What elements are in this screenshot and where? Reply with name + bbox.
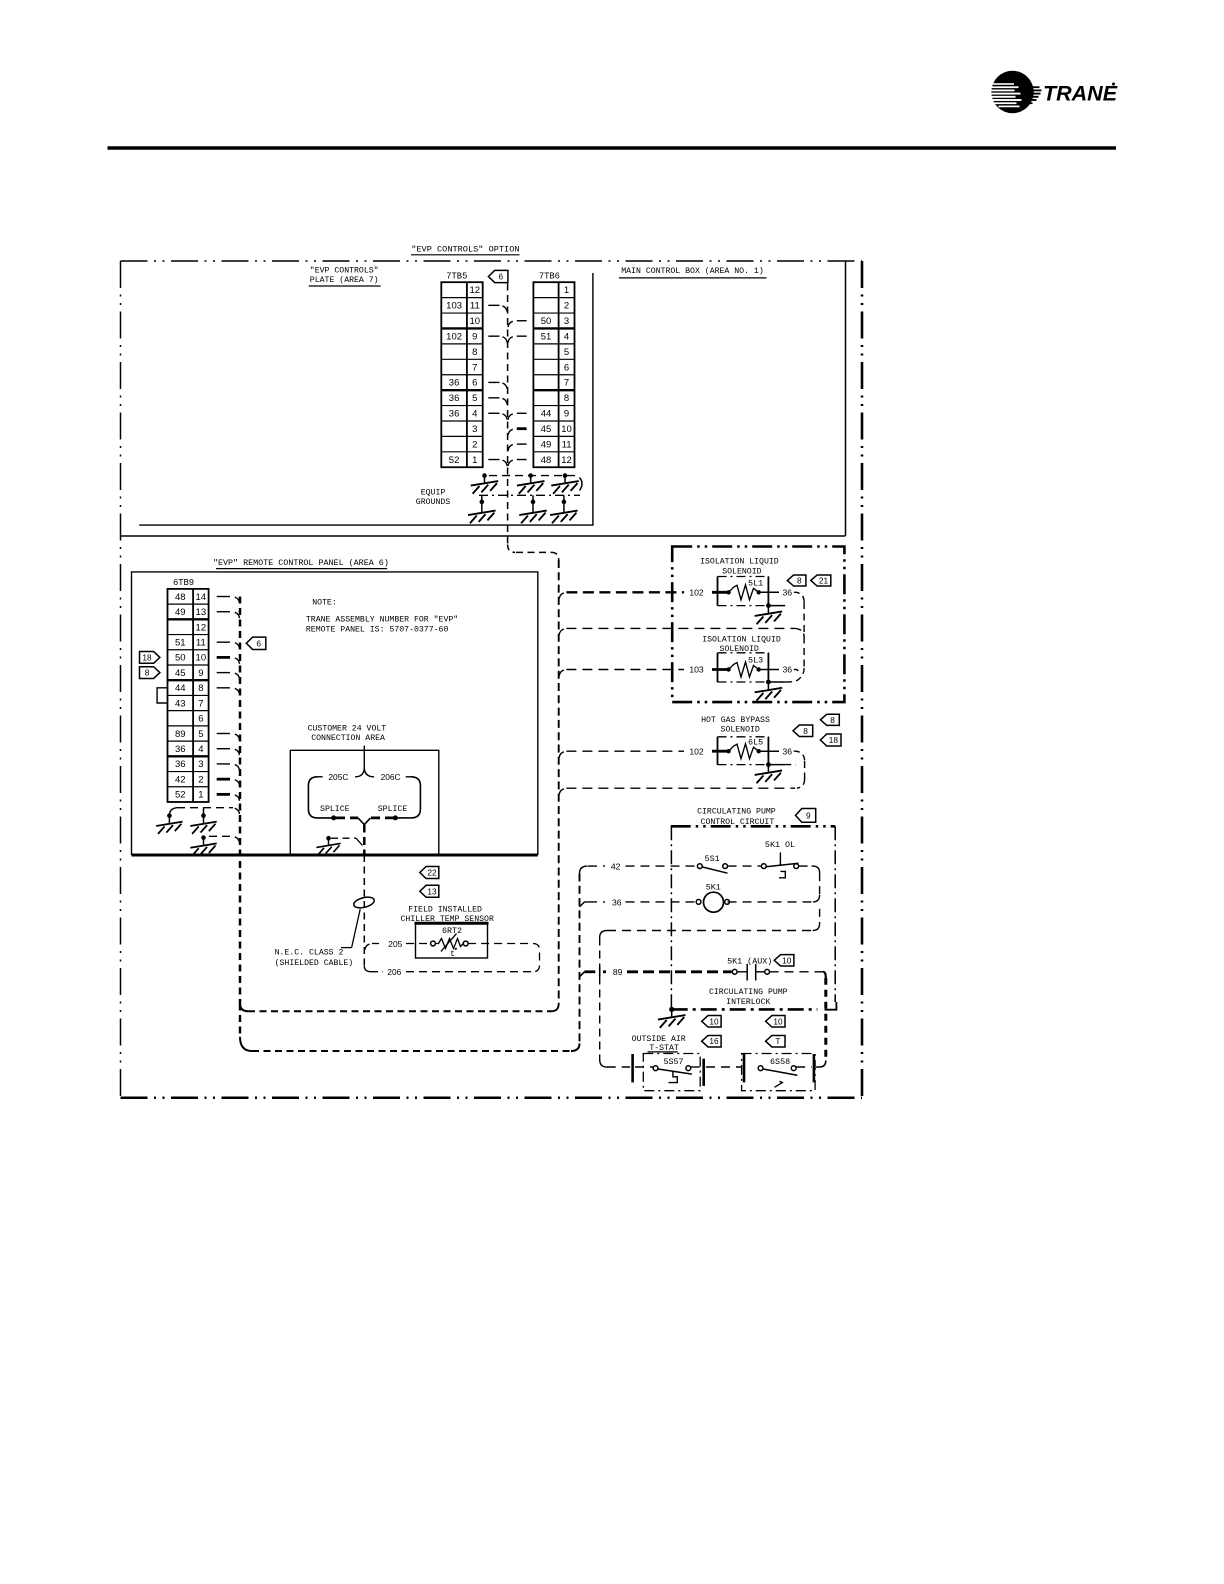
svg-text:42: 42 [611, 862, 621, 872]
svg-text:6RT2: 6RT2 [442, 926, 462, 936]
svg-text:ISOLATION LIQUID: ISOLATION LIQUID [700, 558, 779, 567]
svg-text:205: 205 [388, 939, 402, 949]
svg-text:7TB5: 7TB5 [446, 271, 467, 281]
svg-text:6: 6 [472, 378, 477, 389]
svg-text:2: 2 [564, 301, 569, 312]
svg-text:2: 2 [472, 439, 477, 450]
svg-text:10: 10 [709, 1016, 719, 1026]
svg-text:5S57: 5S57 [663, 1057, 683, 1067]
svg-text:HOT GAS BYPASS: HOT GAS BYPASS [701, 716, 770, 725]
svg-text:5L1: 5L1 [748, 579, 763, 589]
svg-text:10: 10 [561, 424, 572, 435]
svg-text:5K1 OL: 5K1 OL [765, 840, 795, 850]
svg-text:4: 4 [472, 409, 477, 420]
svg-text:49: 49 [175, 607, 186, 618]
svg-text:(SHIELDED CABLE): (SHIELDED CABLE) [275, 958, 354, 968]
svg-text:18: 18 [142, 652, 152, 662]
svg-text:36: 36 [449, 378, 460, 389]
svg-text:TRANE ASSEMBLY NUMBER FOR "EVP: TRANE ASSEMBLY NUMBER FOR "EVP" [306, 614, 458, 624]
svg-text:206: 206 [387, 967, 401, 977]
svg-text:206C: 206C [381, 772, 401, 782]
svg-text:5: 5 [472, 393, 477, 404]
svg-text:SOLENOID: SOLENOID [721, 726, 760, 735]
svg-text:"EVP CONTROLS": "EVP CONTROLS" [310, 266, 379, 276]
svg-text:102: 102 [446, 331, 462, 342]
svg-text:6: 6 [564, 362, 569, 373]
svg-text:CUSTOMER 24 VOLT: CUSTOMER 24 VOLT [308, 725, 387, 734]
svg-text:45: 45 [541, 424, 552, 435]
svg-text:9: 9 [198, 668, 203, 679]
svg-text:7TB6: 7TB6 [539, 271, 560, 281]
svg-text:7: 7 [564, 378, 569, 389]
svg-text:103: 103 [689, 665, 704, 675]
svg-text:6L5: 6L5 [748, 737, 763, 747]
svg-text:PLATE (AREA 7): PLATE (AREA 7) [310, 275, 379, 285]
svg-text:CIRCULATING PUMP: CIRCULATING PUMP [697, 807, 776, 816]
svg-text:1: 1 [564, 285, 569, 296]
svg-text:10: 10 [773, 1016, 783, 1026]
svg-text:8: 8 [803, 726, 808, 736]
svg-text:52: 52 [175, 790, 186, 801]
svg-text:MAIN CONTROL BOX (AREA NO. 1): MAIN CONTROL BOX (AREA NO. 1) [621, 266, 764, 276]
svg-text:8: 8 [198, 683, 203, 694]
svg-text:5K1 (AUX): 5K1 (AUX) [727, 956, 772, 966]
svg-text:GROUNDS: GROUNDS [416, 498, 450, 507]
svg-text:36: 36 [175, 759, 186, 770]
svg-text:12: 12 [470, 285, 481, 296]
svg-text:51: 51 [541, 331, 552, 342]
svg-text:NOTE:: NOTE: [312, 598, 337, 607]
svg-text:6: 6 [498, 271, 503, 281]
svg-text:CONNECTION AREA: CONNECTION AREA [311, 734, 385, 743]
svg-text:4: 4 [564, 331, 569, 342]
svg-text:6: 6 [198, 714, 203, 725]
svg-text:11: 11 [470, 301, 480, 312]
svg-text:36: 36 [449, 409, 460, 420]
svg-text:12: 12 [196, 622, 207, 633]
svg-text:FIELD INSTALLED: FIELD INSTALLED [408, 906, 482, 915]
svg-text:10: 10 [782, 955, 792, 965]
svg-text:16: 16 [709, 1036, 719, 1046]
svg-text:9: 9 [806, 810, 811, 820]
svg-text:8: 8 [145, 668, 150, 678]
svg-text:14: 14 [196, 592, 207, 603]
svg-text:8: 8 [472, 347, 477, 358]
svg-text:4: 4 [198, 744, 203, 755]
svg-text:10: 10 [470, 316, 481, 327]
svg-text:TRANE: TRANE [1043, 82, 1118, 106]
svg-text:"EVP CONTROLS" OPTION: "EVP CONTROLS" OPTION [411, 245, 519, 255]
svg-text:5S1: 5S1 [705, 854, 720, 864]
svg-text:48: 48 [541, 455, 552, 466]
svg-text:7: 7 [472, 362, 477, 373]
svg-text:10: 10 [196, 653, 207, 664]
svg-text:OUTSIDE AIR: OUTSIDE AIR [632, 1035, 686, 1044]
svg-text:50: 50 [541, 316, 552, 327]
svg-text:SPLICE: SPLICE [320, 805, 350, 814]
svg-text:36: 36 [175, 744, 186, 755]
svg-text:T: T [775, 1036, 780, 1046]
svg-text:36: 36 [612, 897, 622, 907]
svg-text:8: 8 [797, 575, 802, 585]
svg-text:18: 18 [829, 735, 839, 745]
svg-text:2: 2 [198, 774, 203, 785]
svg-text:102: 102 [689, 588, 704, 598]
svg-text:SOLENOID: SOLENOID [722, 567, 761, 576]
svg-text:102: 102 [689, 746, 704, 756]
svg-text:11: 11 [562, 439, 572, 450]
svg-text:50: 50 [175, 653, 186, 664]
svg-text:52: 52 [449, 455, 460, 466]
svg-text:89: 89 [175, 729, 186, 740]
svg-text:5: 5 [198, 729, 203, 740]
svg-text:36: 36 [783, 746, 793, 756]
svg-text:12: 12 [561, 455, 572, 466]
svg-text:3: 3 [472, 424, 477, 435]
svg-text:13: 13 [196, 607, 207, 618]
svg-text:45: 45 [175, 668, 186, 679]
svg-text:1: 1 [472, 455, 477, 466]
svg-text:89: 89 [613, 967, 623, 977]
svg-text:t: t [450, 950, 455, 959]
svg-text:N.E.C. CLASS 2: N.E.C. CLASS 2 [275, 948, 344, 957]
svg-text:103: 103 [446, 301, 462, 312]
svg-text:5: 5 [564, 347, 569, 358]
svg-text:1: 1 [198, 790, 203, 801]
svg-text:8: 8 [830, 715, 835, 725]
svg-text:36: 36 [449, 393, 460, 404]
svg-text:SPLICE: SPLICE [378, 805, 408, 814]
svg-text:6TB9: 6TB9 [173, 578, 194, 588]
svg-text:49: 49 [541, 439, 552, 450]
svg-text:51: 51 [175, 637, 186, 648]
svg-text:36: 36 [783, 665, 793, 675]
svg-text:REMOTE PANEL IS: 5707-0377-60: REMOTE PANEL IS: 5707-0377-60 [306, 626, 449, 635]
svg-text:"EVP" REMOTE CONTROL PANEL (AR: "EVP" REMOTE CONTROL PANEL (AREA 6) [213, 558, 389, 568]
svg-text:6: 6 [256, 638, 261, 648]
svg-text:43: 43 [175, 698, 186, 709]
svg-text:3: 3 [564, 316, 569, 327]
svg-text:11: 11 [196, 637, 206, 648]
svg-text:36: 36 [783, 588, 793, 598]
svg-text:INTERLOCK: INTERLOCK [726, 998, 770, 1007]
svg-text:EQUIP: EQUIP [421, 489, 446, 498]
svg-text:5K1: 5K1 [706, 882, 721, 892]
svg-text:22: 22 [427, 867, 437, 877]
svg-text:3: 3 [198, 759, 203, 770]
svg-text:44: 44 [541, 409, 552, 420]
svg-text:48: 48 [175, 592, 186, 603]
svg-text:5L3: 5L3 [748, 656, 763, 666]
svg-text:8: 8 [564, 393, 569, 404]
svg-text:205C: 205C [328, 772, 348, 782]
svg-text:9: 9 [472, 331, 477, 342]
svg-text:44: 44 [175, 683, 186, 694]
svg-text:9: 9 [564, 409, 569, 420]
svg-text:ISOLATION LIQUID: ISOLATION LIQUID [702, 635, 781, 644]
svg-text:6S58: 6S58 [770, 1057, 790, 1067]
svg-text:CIRCULATING PUMP: CIRCULATING PUMP [709, 988, 788, 997]
svg-text:13: 13 [427, 886, 437, 896]
svg-text:21: 21 [819, 575, 829, 585]
svg-text:42: 42 [175, 774, 186, 785]
svg-text:7: 7 [198, 698, 203, 709]
